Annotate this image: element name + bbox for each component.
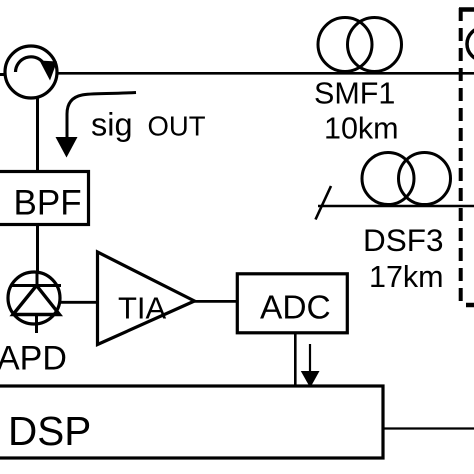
svg-text:TIA: TIA bbox=[118, 291, 167, 326]
dashed enclosure left edge bbox=[459, 8, 463, 303]
wire: APD to TIA bbox=[59, 301, 98, 304]
processor DSP box bbox=[0, 386, 383, 458]
svg-text:ADC: ADC bbox=[260, 290, 331, 327]
amplifier TIA (triangle) bbox=[98, 252, 195, 345]
svg-text:DSF3: DSF3 bbox=[363, 222, 444, 258]
circulator bbox=[5, 46, 57, 98]
bandpass filter BPF box bbox=[0, 172, 89, 225]
svg-text:BPF: BPF bbox=[14, 184, 82, 223]
svg-text:OUT: OUT bbox=[148, 111, 206, 142]
fiber spool DSF3 bbox=[362, 153, 451, 205]
photodiode APD bbox=[8, 272, 61, 333]
svg-text:SMF1: SMF1 bbox=[314, 77, 395, 111]
wire: fiber from circulator to right edge through SMF1 spool bbox=[56, 72, 474, 75]
dashed enclosure bottom edge bbox=[466, 303, 474, 308]
fiber spool SMF1 bbox=[318, 18, 402, 72]
svg-text:17km: 17km bbox=[369, 260, 444, 294]
sig OUT arrow (curved) bbox=[56, 93, 137, 158]
converter ADC box bbox=[237, 274, 347, 333]
wire: TIA to ADC bbox=[195, 300, 239, 303]
wire: BPF to APD bbox=[36, 225, 39, 275]
svg-text:APD: APD bbox=[0, 340, 67, 378]
dashed enclosure top edge bbox=[459, 7, 474, 12]
fiber break slash bbox=[316, 186, 332, 220]
wire: ADC to DSP bbox=[294, 333, 297, 387]
component circle inside dashed enclosure (clipped) bbox=[467, 28, 474, 61]
wire: DSP output to right edge bbox=[383, 427, 474, 429]
svg-text:sig: sig bbox=[91, 107, 133, 143]
wire: input fiber at left edge into circulator bbox=[0, 73, 8, 76]
svg-text:10km: 10km bbox=[324, 112, 399, 146]
svg-text:DSP: DSP bbox=[8, 408, 91, 454]
arrow into DSP bbox=[301, 344, 320, 388]
wire: fiber line through DSF3 spool with break slash bbox=[318, 205, 474, 208]
wire: circulator to BPF bbox=[36, 98, 39, 172]
